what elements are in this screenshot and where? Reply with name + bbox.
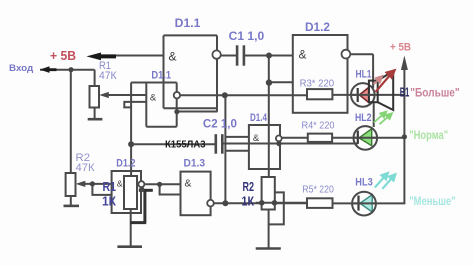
resistor R1 1K body xyxy=(124,176,137,209)
wire HL1 to HL2 link xyxy=(373,103,375,127)
svg-text:&: & xyxy=(169,50,177,64)
svg-text:C2 1,0: C2 1,0 xyxy=(203,117,237,131)
wire input horizontal xyxy=(40,69,95,71)
wire C1 to D1.2 input 1 xyxy=(244,55,293,57)
wire R1 pot wiper to G2 input 1 xyxy=(108,94,147,96)
speaker B1 horn xyxy=(378,71,394,110)
LED HL1 red arrow xyxy=(376,70,395,92)
junction C1 node xyxy=(266,53,272,59)
junction rail HL2 node xyxy=(402,134,407,139)
svg-text:R5* 220: R5* 220 xyxy=(302,184,334,196)
resistor R3 220 xyxy=(307,89,332,99)
svg-text:&: & xyxy=(150,92,157,103)
potentiometer R1 wiper arrow xyxy=(99,92,109,98)
junction D1.3 output node xyxy=(222,200,228,206)
svg-text:"Больше": "Больше" xyxy=(410,85,460,99)
gate ampersand symbols xyxy=(117,49,307,190)
svg-text:К155ЛА3: К155ЛА3 xyxy=(165,139,206,151)
svg-text:+ 5В: + 5В xyxy=(50,49,76,63)
svg-text:D1.2: D1.2 xyxy=(116,158,135,170)
svg-text:D1.1: D1.1 xyxy=(151,69,171,81)
wire D1.2b output to D1.3 input 1 xyxy=(144,183,180,185)
svg-text:&: & xyxy=(185,179,192,190)
wire input down to R1 pot xyxy=(94,70,96,86)
ground bar under R1 1K xyxy=(117,245,142,248)
wire R3 to HL1 to rail xyxy=(332,94,404,96)
svg-text:&: & xyxy=(253,133,260,144)
junction R2 wiper node xyxy=(90,181,95,186)
wire R2b side loop xyxy=(269,192,284,224)
svg-text:HL3: HL3 xyxy=(355,177,372,189)
wire C2 right to HL2 bottom xyxy=(222,143,357,145)
svg-text:47К: 47К xyxy=(99,70,117,82)
junction D1.2 input node xyxy=(266,79,272,85)
LED HL2 green arrows xyxy=(374,112,392,125)
LED HL3 triangle xyxy=(360,195,372,212)
potentiometer R2 wiper arrow xyxy=(76,181,86,187)
inverter bubble D1.4 xyxy=(276,136,282,142)
wire D1.2b input 2 xyxy=(92,184,111,195)
wire vertical bus x225 xyxy=(224,95,226,203)
svg-text:D1.3: D1.3 xyxy=(184,158,206,170)
gate D1.4 box xyxy=(249,125,280,169)
wire D1.2 output right xyxy=(350,53,373,55)
svg-text:"Меньше": "Меньше" xyxy=(409,196,456,208)
wire R5 to HL3 to rail xyxy=(333,66,405,203)
svg-text:R3* 220: R3* 220 xyxy=(300,78,335,90)
annotation arrow input xyxy=(40,66,57,73)
gate D1.2b box xyxy=(112,171,141,213)
LED HL1 circle xyxy=(351,83,375,107)
svg-text:+ 5В: + 5В xyxy=(390,42,411,54)
junction D1.2b output node xyxy=(157,182,162,187)
wire R1 pot bottom lead xyxy=(94,108,96,119)
wire K155 horizontal to C2 xyxy=(131,143,216,145)
svg-text:&: & xyxy=(117,178,123,188)
wire down to HL1 xyxy=(372,54,374,88)
wire thick feedback bottom xyxy=(130,221,146,224)
wire R1b bottom lead xyxy=(130,209,132,246)
inverter bubble D1.1 xyxy=(212,50,220,58)
junction R2b right node xyxy=(272,200,278,206)
svg-text:&: & xyxy=(299,49,307,62)
LED HL1 red stub arrow xyxy=(374,76,383,84)
wire D1.1 output to C1 xyxy=(221,55,237,57)
LED HL2 circle xyxy=(354,126,378,150)
wire through R2 1K xyxy=(256,202,307,204)
wire D1.4 output to R4 xyxy=(282,137,308,139)
LED HL3 circle xyxy=(352,192,376,216)
gate D1.2 box xyxy=(293,35,348,113)
junction G2 output node xyxy=(222,92,228,98)
potentiometer R1 47K body xyxy=(90,86,100,108)
junction feedback node xyxy=(139,187,144,192)
resistor R4 220 xyxy=(308,134,332,142)
wire R1b top lead vertical xyxy=(130,83,132,177)
wire thick feedback stub xyxy=(139,189,153,192)
capacitor C2 xyxy=(216,134,223,154)
wire node A down to R2 pot xyxy=(70,70,72,173)
wire D1.4 input 2 stub xyxy=(225,150,249,152)
LED HL2 cathode bar xyxy=(357,131,359,144)
inverter bubble D1.2b xyxy=(138,181,144,187)
svg-text:D1.4: D1.4 xyxy=(250,112,268,124)
gate G2 box (D1.1 lower) xyxy=(131,83,177,127)
svg-text:47К: 47К xyxy=(76,162,96,174)
junction R1b top node xyxy=(128,141,134,147)
ground bar under R2 pot xyxy=(64,205,80,208)
wire R2 pot wiper to D1.2b input 1 xyxy=(84,183,112,185)
LED HL1 triangle xyxy=(359,87,369,103)
svg-text:HL1: HL1 xyxy=(356,69,372,81)
capacitor C1 xyxy=(237,45,244,65)
LED HL3 cyan arrows xyxy=(375,173,396,189)
wire to D1.3 input 2 xyxy=(160,184,181,194)
svg-text:D1.2: D1.2 xyxy=(305,20,330,34)
wire D1.3 output row to R5 xyxy=(214,202,307,204)
svg-text:1К: 1К xyxy=(102,194,116,209)
ground bar under R1 pot xyxy=(88,118,103,121)
svg-text:C1 1,0: C1 1,0 xyxy=(229,29,265,43)
svg-text:R4* 220: R4* 220 xyxy=(302,120,335,132)
junction R2b left node xyxy=(259,200,265,206)
wire G2 input 2 xyxy=(124,102,146,108)
potentiometer R2 47K body xyxy=(66,173,76,196)
ground bar under R2 1K xyxy=(256,247,281,250)
wire R4 to HL2 to rail xyxy=(332,137,404,139)
svg-text:R2: R2 xyxy=(243,179,255,194)
svg-text:Вход: Вход xyxy=(9,63,33,74)
inverter bubble G2 xyxy=(174,92,180,98)
annotation arrow +5V left xyxy=(86,53,116,61)
junction input node xyxy=(68,67,73,72)
svg-text:R1: R1 xyxy=(103,179,117,194)
wire C1 junction down xyxy=(268,56,270,178)
resistor R5 220 xyxy=(307,198,333,208)
gate D1.3 box xyxy=(181,172,211,216)
svg-text:HL2: HL2 xyxy=(355,112,372,124)
junction G2 lower node xyxy=(174,109,179,114)
LED HL3 cathode bar xyxy=(357,196,359,211)
speaker B1 body xyxy=(369,81,378,103)
wire D1.4 input 1 stub xyxy=(225,136,249,138)
svg-text:1К: 1К xyxy=(242,194,255,209)
wire G2 lower output stub xyxy=(177,111,218,113)
svg-text:"Норма": "Норма" xyxy=(409,130,448,142)
inverter bubble D1.2 xyxy=(342,50,351,59)
LED HL2 triangle xyxy=(359,129,372,146)
LED HL1 cathode bar xyxy=(357,88,359,102)
power rail arrow head xyxy=(401,56,408,71)
wire thick feedback vertical xyxy=(143,190,146,222)
wire G2 output to R3 row xyxy=(180,94,307,96)
wire across HL3 xyxy=(352,202,376,204)
resistor R2 1K body xyxy=(262,177,275,210)
inverter bubble D1.3 xyxy=(207,200,214,207)
wire across HL1 xyxy=(352,94,375,96)
junction D1.4 output node xyxy=(276,141,281,146)
wire R2b bottom lead xyxy=(268,210,270,248)
svg-text:В1: В1 xyxy=(400,84,410,99)
wire D1.1 input xyxy=(108,55,164,57)
wire R2 pot bottom lead xyxy=(70,196,72,206)
gate D1.1 box xyxy=(164,35,218,111)
svg-text:D1.1: D1.1 xyxy=(175,16,201,30)
wire to D1.2 input 2 xyxy=(269,81,293,83)
wire across HL2 xyxy=(354,137,378,139)
